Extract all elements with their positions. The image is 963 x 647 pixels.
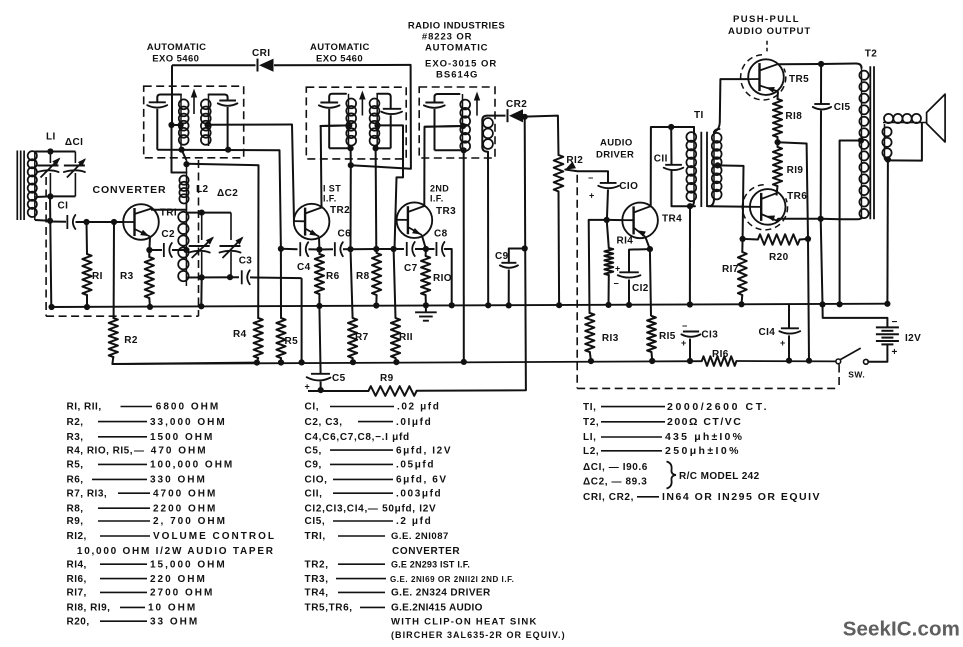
transistor TR6 [750,189,786,225]
svg-text:CI3: CI3 [701,330,718,341]
svg-text:TI,: TI, [583,402,596,413]
resistor R18 [777,91,780,99]
svg-text:R5: R5 [285,336,299,347]
svg-text:.05μfd: .05μfd [396,460,435,471]
svg-text:TR3: TR3 [436,206,456,217]
R12 wiper arrow [565,162,576,170]
svg-text:R2: R2 [124,335,138,346]
switch SW [864,359,869,364]
svg-text:I ST: I ST [323,184,341,194]
svg-text:TRI: TRI [160,208,177,219]
svg-text:33 OHM: 33 OHM [150,616,199,627]
svg-text:AUDIO OUTPUT: AUDIO OUTPUT [728,26,811,37]
antenna ferrite rod [16,151,18,221]
svg-text:G.E 2N293 IST I.F.: G.E 2N293 IST I.F. [391,559,470,569]
transistor TR4 [622,203,658,239]
svg-text:TR4: TR4 [662,214,682,225]
IF1 tuning arrow [193,96,195,114]
svg-text:4700 OHM: 4700 OHM [153,488,217,499]
wire R18/R19 junction to R20 [778,142,808,239]
svg-text:33,000 OHM: 33,000 OHM [150,417,227,428]
svg-text:R6: R6 [326,271,340,282]
svg-text:2000/2600 CT.: 2000/2600 CT. [667,401,769,413]
capacitor C9 [509,249,525,263]
wire battery to switch [868,344,887,361]
svg-text:CI,: CI, [305,402,320,413]
inductor T2 secondary voice coil [883,122,927,124]
svg-text:.003μfd: .003μfd [396,488,442,499]
wire IF1 bottom line [157,149,279,152]
svg-text:R7: R7 [355,332,369,343]
capacitor C1 [50,221,66,223]
svg-text:+: + [780,338,786,348]
svg-text:R4, RIO, RI5,: R4, RIO, RI5, [67,445,134,456]
capacitor C7 [406,242,408,256]
svg-text:RII: RII [399,332,413,343]
svg-text:#8223 OR: #8223 OR [422,32,473,43]
svg-text:RI7: RI7 [722,264,739,275]
svg-text:CR2: CR2 [506,99,527,110]
wire TR4 emitter node [647,246,653,252]
svg-text:CIO: CIO [619,181,638,192]
svg-text:TRI,: TRI, [305,531,326,542]
svg-text:CIO,: CIO, [305,475,328,486]
svg-text:R9: R9 [380,373,394,384]
inductor IF3 primary winding [462,94,464,150]
svg-text:G.E. 2N324 DRIVER: G.E. 2N324 DRIVER [391,588,491,599]
resistor R2 [113,222,115,318]
transistor TR2 [294,204,330,240]
wire IF3 bottom line [435,149,464,151]
svg-text:T2,: T2, [583,417,599,428]
IF transformer T-IF2 dashed box [306,87,406,159]
svg-text:T2: T2 [865,49,878,60]
svg-text:I.F.: I.F. [430,194,444,204]
resistor R7 [351,249,353,318]
svg-text:C6: C6 [338,229,352,240]
svg-text:G.E. 2NI69 OR 2NII2I 2ND I.F.: G.E. 2NI69 OR 2NII2I 2ND I.F. [390,575,514,584]
wire antenna tank to rail [50,196,51,307]
svg-text:R20,: R20, [67,616,90,627]
wire TR6 emitter to T2 bottom [777,219,821,221]
svg-text:ΔC2: ΔC2 [217,188,238,199]
svg-text:.0Iμfd: .0Iμfd [396,417,432,428]
svg-text:C4: C4 [297,262,311,273]
svg-text:LI,: LI, [583,432,596,443]
svg-text:CII: CII [654,154,668,165]
transistor TR3 [397,202,433,238]
svg-text:CI: CI [58,201,69,212]
inductor L1 antenna coil [34,152,36,221]
svg-text:10 OHM: 10 OHM [148,603,197,614]
svg-text:AUTOMATIC: AUTOMATIC [425,43,488,54]
wire osc tank bottom [187,276,239,278]
svg-text:C2: C2 [161,229,175,240]
node T1 center tap [715,162,721,168]
svg-text:RIO: RIO [433,273,452,284]
svg-text:435 μh±I0%: 435 μh±I0% [665,431,744,443]
svg-text:CI2,CI3,CI4,— 50μfd, I2V: CI2,CI3,CI4,— 50μfd, I2V [305,503,437,514]
svg-text:L2,: L2, [583,446,599,457]
svg-text:AUDIO: AUDIO [600,138,633,149]
svg-text:RI6,: RI6, [67,574,87,585]
svg-text:AUTOMATIC: AUTOMATIC [147,42,207,53]
inductor IF3 secondary winding [482,116,487,147]
svg-text:RI2,: RI2, [67,531,87,542]
svg-text:C9: C9 [495,251,509,262]
svg-text:RI8, RI9,: RI8, RI9, [67,603,111,614]
capacitor IF2 right tank cap [377,94,391,109]
svg-text:DRIVER: DRIVER [596,150,634,161]
inductor T2 primary [821,64,861,69]
wire speaker return to rail [886,160,889,304]
svg-text:C3: C3 [239,256,253,267]
node T2 center tap [858,137,864,143]
svg-text:CI4: CI4 [759,327,776,338]
capacitor IF1 left tank cap [157,95,181,103]
resistor R8 [375,249,377,253]
svg-text:15,000 OHM: 15,000 OHM [150,559,227,570]
svg-text:C9,: C9, [305,460,322,471]
node IF2 primary tap [320,124,350,127]
svg-text:CONVERTER: CONVERTER [93,184,167,196]
svg-text:G.E.2NI415 AUDIO: G.E.2NI415 AUDIO [391,603,483,614]
wire AGC feed line down [524,117,527,249]
svg-text:G.E. 2NI087: G.E. 2NI087 [391,531,449,542]
wire IF3 tank return to lower rail [463,150,465,362]
wire volume line to C5 [308,390,368,392]
svg-text:TR4,: TR4, [305,588,329,599]
svg-text:— 470 OHM: — 470 OHM [134,445,208,456]
resistor R15 [650,249,651,316]
inductor T1 secondary [713,131,715,201]
capacitor C4 [299,242,301,256]
svg-text:CII,: CII, [305,488,323,499]
wire T1 secondary top to TR5 base [714,79,748,132]
svg-text:2200 OHM: 2200 OHM [153,503,217,514]
wire TR2 base feed [292,125,294,222]
TR6 heat sink dashed arc [742,185,787,230]
svg-text:CI2: CI2 [632,283,649,294]
wire AGC top rail [172,64,256,66]
resistor R6 [318,250,320,255]
IF3 tuning arrow [476,99,478,116]
inductor IF1 primary winding [180,95,182,150]
svg-text:6800 OHM: 6800 OHM [156,402,220,413]
resistor R17 [741,239,743,252]
wire C15 bottom to rail and battery [821,219,823,305]
inductor IF2 primary winding [348,94,350,149]
svg-text:AUTOMATIC: AUTOMATIC [310,42,370,53]
resistor R13 [585,313,594,352]
capacitor IF3 tank cap [435,94,460,103]
inductor L2 [186,160,188,211]
resistor R3 [148,250,150,257]
svg-text:−: − [614,279,620,289]
audio section dashed box [576,175,578,389]
svg-text:200Ω CT/VC: 200Ω CT/VC [667,416,742,428]
wire R20 right leg to lower rail [808,239,809,361]
svg-text:RI7,: RI7, [67,588,87,599]
wire TR3 collector to IF3 [424,126,463,206]
svg-text:C7: C7 [404,263,418,274]
capacitor C5 [319,306,320,374]
svg-text:RI4,: RI4, [67,559,87,570]
IF transformer T-IF3 dashed box [419,87,495,158]
svg-text:−: − [588,173,594,183]
svg-text:R3,: R3, [67,432,84,443]
svg-text:250μh±I0%: 250μh±I0% [665,445,741,457]
converter stage dashed box [45,177,47,316]
svg-text:WITH CLIP-ON HEAT SINK: WITH CLIP-ON HEAT SINK [391,616,538,627]
svg-text:C5: C5 [332,373,346,384]
svg-text:R5,: R5, [67,460,84,471]
resistor R14 [607,220,609,248]
svg-text:6μfd, I2V: 6μfd, I2V [396,445,452,456]
svg-text:RI5: RI5 [659,331,676,342]
wire lower supply rail [112,361,701,364]
T1 core [700,132,702,207]
variable capacitor dC1 section B [74,152,76,164]
svg-text:RI8: RI8 [785,111,802,122]
wire main rail [51,304,889,307]
svg-text:R9,: R9, [67,516,84,527]
node IF1 primary tap [172,124,182,126]
svg-text:RI4: RI4 [617,236,634,247]
svg-text:TR5,TR6,: TR5,TR6, [305,603,353,614]
svg-text:2, 700 OHM: 2, 700 OHM [153,516,227,527]
svg-text:ΔCI, — I90.6: ΔCI, — I90.6 [583,462,648,473]
svg-text:R7, RI3,: R7, RI3, [67,488,108,499]
capacitor C2 [146,247,152,253]
wire IF2 primary return [350,148,352,165]
svg-text:ΔC2, — 89.3: ΔC2, — 89.3 [583,477,647,488]
svg-text:EXO 5460: EXO 5460 [316,54,363,65]
capacitor IF1 right tank cap [209,95,228,101]
svg-text:ΔCI: ΔCI [65,137,83,148]
capacitor C11 [668,124,674,130]
svg-text:R2,: R2, [67,417,84,428]
capacitor C3 [241,270,243,284]
node L2 top junction [183,161,189,167]
svg-text:+: + [892,347,898,358]
IF transformer T-IF1 dashed box [144,86,244,158]
svg-text:RI3: RI3 [602,333,619,344]
svg-text:.2 μfd: .2 μfd [396,516,432,527]
svg-text:C5,: C5, [305,445,322,456]
wire TR5 collector to T2 [777,63,821,65]
inductor IF1 secondary winding [208,95,210,147]
capacitor C6 [319,248,333,250]
potentiometer R12 volume control [554,155,564,191]
svg-text:R4: R4 [233,329,247,340]
wire IF2 bottom lines [329,147,350,149]
wire CR2 output to R12 [525,116,559,155]
svg-text:220 OHM: 220 OHM [150,574,207,585]
svg-text:.02 μfd: .02 μfd [397,402,440,413]
svg-text:R8,: R8, [67,503,84,514]
svg-text:R3: R3 [120,271,134,282]
diode CR2 [487,115,505,117]
svg-text:TI: TI [694,110,704,121]
resistor R10 [425,249,427,256]
wire L1 tap to dC1 [36,195,51,198]
svg-text:10,000 OHM I/2W AUDIO TAPER: 10,000 OHM I/2W AUDIO TAPER [77,546,275,557]
capacitor IF2 left tank cap [329,94,346,103]
svg-text:CI5: CI5 [834,102,851,113]
svg-text:VOLUME CONTROL: VOLUME CONTROL [153,531,276,542]
svg-text:RI9: RI9 [787,165,804,176]
svg-text:RI6: RI6 [712,349,729,360]
resistor R20 [740,236,746,242]
capacitor C14 [788,304,790,328]
svg-text:TR2: TR2 [330,205,350,216]
capacitor C15 [820,64,822,104]
svg-text:SW.: SW. [848,370,865,380]
resistor R9 [368,386,416,396]
svg-text:CONVERTER: CONVERTER [392,546,460,557]
svg-text:RI: RI [92,271,103,282]
svg-text:I.F.: I.F. [323,194,337,204]
svg-text:−: − [892,317,898,328]
svg-text:+: + [681,338,687,348]
svg-text:(BIRCHER 3AL635-2R OR EQUIV.): (BIRCHER 3AL635-2R OR EQUIV.) [391,630,566,640]
wire L1 bottom [35,219,50,222]
svg-text:PUSH-PULL: PUSH-PULL [733,14,800,25]
svg-text:1500 OHM: 1500 OHM [150,432,214,443]
svg-text:I2V: I2V [905,333,921,344]
wire T1 secondary bottom to TR6 base [708,199,750,207]
svg-text:R8: R8 [356,271,370,282]
wire IF2 secondary return to R8 [375,148,378,249]
inductor IF2 secondary winding [376,94,378,149]
svg-text:RI2: RI2 [566,155,583,166]
svg-text:IN64 OR IN295 OR EQUIV: IN64 OR IN295 OR EQUIV [662,491,821,503]
resistor R4 [257,165,259,318]
svg-text:6μfd, 6V: 6μfd, 6V [396,475,448,486]
wire TR2 stage coupling row [278,246,284,252]
svg-text:+: + [589,191,595,201]
svg-text:LI: LI [46,132,56,143]
svg-text:TR2,: TR2, [305,559,329,570]
svg-text:RADIO INDUSTRIES: RADIO INDUSTRIES [408,21,505,32]
wire TR4 base bias to R13 [589,220,607,313]
speaker horn [927,94,946,142]
svg-text:TR6: TR6 [787,191,807,202]
capacitor C8 [426,248,435,250]
brace R/C MODEL 242 [667,462,677,489]
resistor R16 [702,356,737,366]
svg-text:CI5,: CI5, [305,516,326,527]
node IF3 primary tap [425,125,464,128]
wire TR1 collector to L2 [151,209,186,211]
transistor TR1 [123,204,159,240]
svg-text:C4,C6,C7,C8,−.I μfd: C4,C6,C7,C8,−.I μfd [305,432,410,443]
wire dC2 return to lower rail [301,278,303,364]
wire TR4 collector to T1 [651,127,694,206]
wire IF2 secondary tap to TR3 base [378,125,404,249]
wire IF1 secondary tap to TR2 base [208,124,293,126]
svg-text:R20: R20 [769,252,789,263]
svg-text:330 OHM: 330 OHM [150,475,207,486]
svg-text:RI, RII,: RI, RII, [67,402,102,413]
svg-text:R/C MODEL 242: R/C MODEL 242 [679,471,760,482]
inductor T1 primary [693,127,695,134]
wire T1 primary return to rail and C13 [689,206,691,304]
wire AGC feed down through IF1 [172,125,187,173]
diode CR1 [257,59,259,72]
svg-text:BS614G: BS614G [436,70,478,81]
svg-text:−: − [682,321,688,331]
svg-text:EXO 5460: EXO 5460 [152,54,199,65]
resistor R1 [86,222,89,254]
transistor TR5 [748,59,784,95]
svg-text:EXO-3015 OR: EXO-3015 OR [425,59,497,70]
svg-text:100,000 OHM: 100,000 OHM [150,460,234,471]
IF2 tuning arrow [361,98,363,116]
svg-text:C2, C3,: C2, C3, [305,417,343,428]
TR5 heat sink dashed arc [741,55,786,100]
svg-text:R6,: R6, [67,475,84,486]
T2 core [869,66,871,219]
svg-text:CRI, CR2,: CRI, CR2, [583,492,634,503]
svg-text:2ND: 2ND [430,184,449,194]
svg-text:C8: C8 [434,229,448,240]
svg-text:SeekIC.com: SeekIC.com [843,618,960,641]
inductor oscillator coil [178,212,188,222]
svg-text:TR5: TR5 [789,74,809,85]
wire TR2 collector to IF2 [321,125,350,207]
svg-text:TR3,: TR3, [305,574,329,585]
svg-text:2700 OHM: 2700 OHM [150,588,214,599]
svg-text:CRI: CRI [252,48,270,59]
resistor R19 [773,147,782,186]
ground symbol [425,305,427,312]
resistor R11 [394,249,396,318]
variable capacitor dC2 section B [230,213,232,240]
resistor R5 [280,150,281,249]
